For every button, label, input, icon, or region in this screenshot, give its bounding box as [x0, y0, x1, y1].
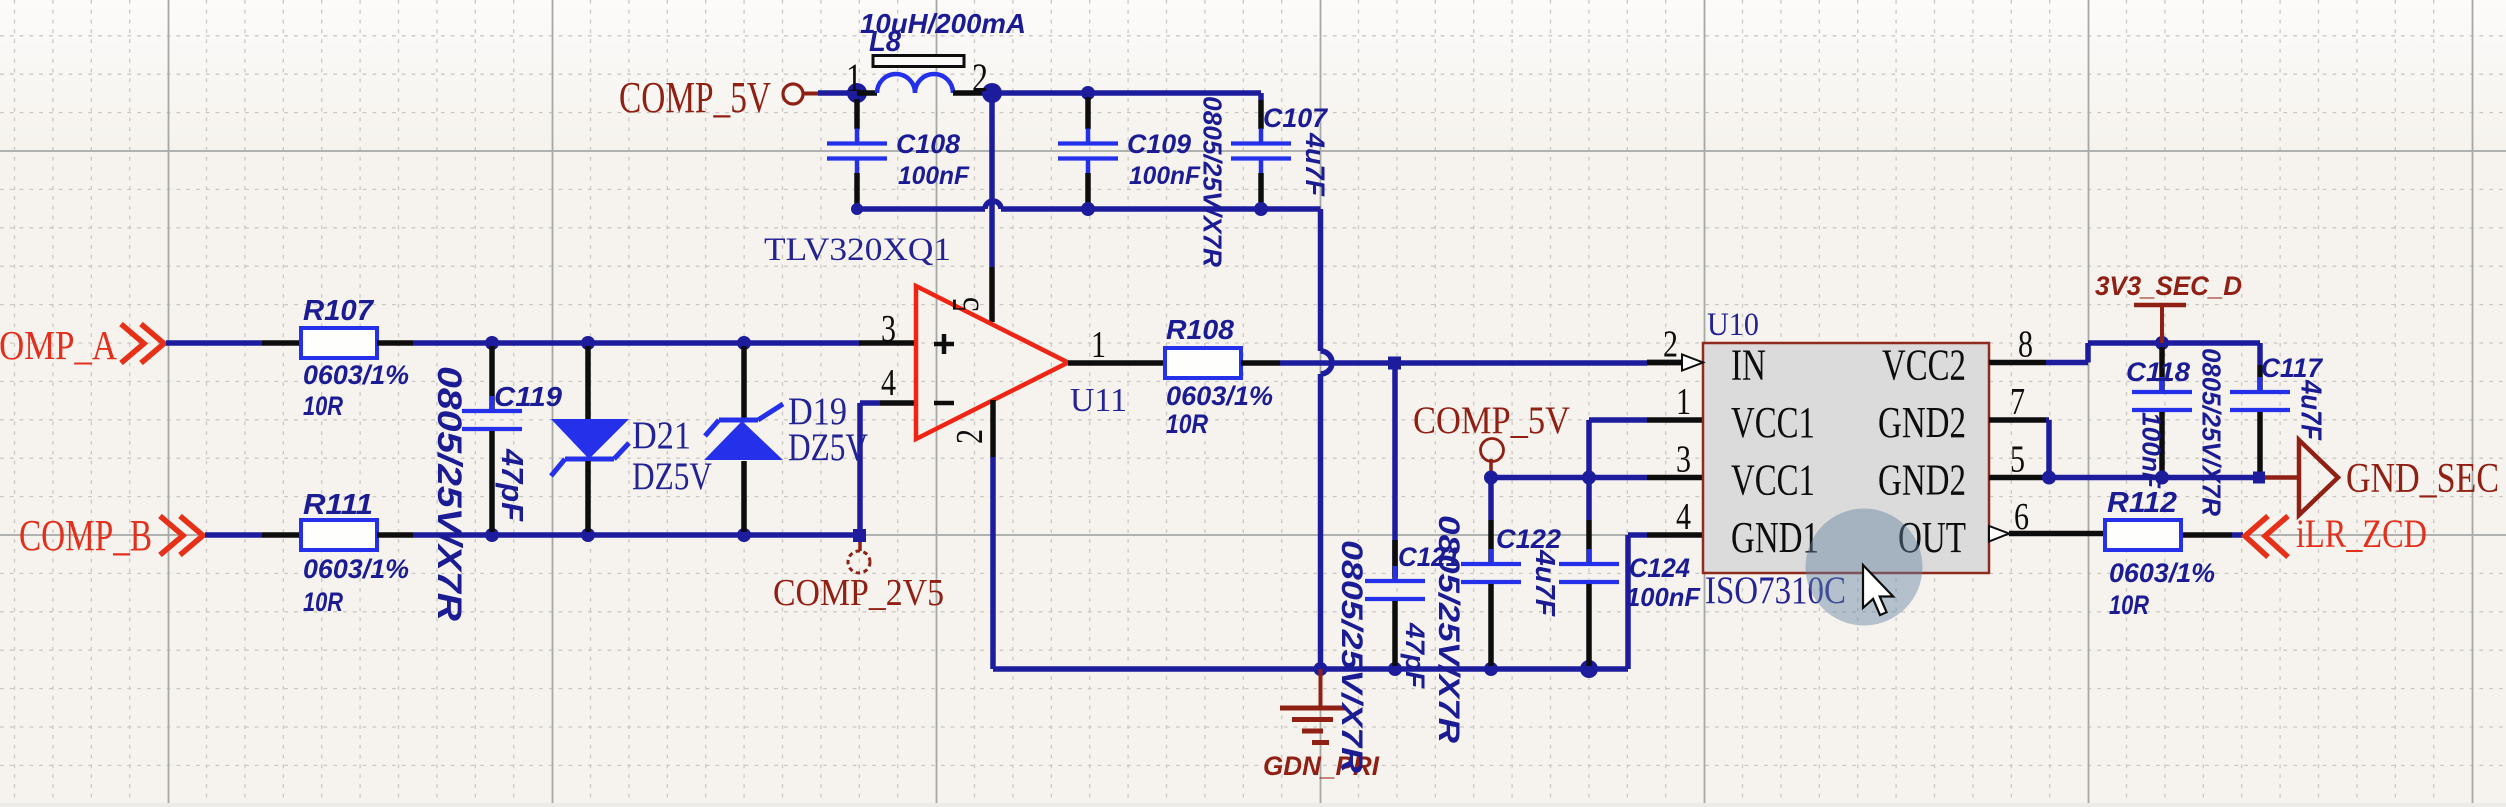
svg-text:VCC1: VCC1: [1731, 456, 1815, 505]
svg-text:GND_SEC: GND_SEC: [2346, 456, 2499, 502]
svg-text:R112: R112: [2107, 487, 2177, 519]
svg-text:iLR_ZCD: iLR_ZCD: [2296, 511, 2427, 556]
svg-text:R111: R111: [303, 489, 373, 521]
svg-text:2: 2: [949, 429, 991, 444]
svg-text:0603/1%: 0603/1%: [2109, 558, 2215, 588]
svg-text:5: 5: [945, 297, 987, 312]
svg-text:0805/25V/X7R: 0805/25V/X7R: [430, 366, 468, 622]
svg-text:C109: C109: [1127, 129, 1191, 159]
svg-text:IN: IN: [1731, 341, 1766, 390]
svg-text:100nF: 100nF: [1626, 582, 1701, 612]
svg-text:VCC2: VCC2: [1882, 341, 1966, 390]
svg-text:C124: C124: [1629, 553, 1690, 583]
svg-text:100nF: 100nF: [1129, 162, 1201, 190]
svg-text:0805/25V/X7R: 0805/25V/X7R: [1335, 540, 1368, 773]
svg-text:4: 4: [1676, 496, 1691, 538]
svg-text:U10: U10: [1707, 307, 1759, 343]
svg-text:1: 1: [1676, 381, 1691, 423]
svg-text:C119: C119: [494, 381, 562, 412]
svg-text:3: 3: [1676, 439, 1691, 481]
svg-text:10R: 10R: [303, 587, 343, 617]
svg-text:2: 2: [972, 55, 988, 100]
svg-text:GND2: GND2: [1878, 398, 1966, 447]
svg-text:0805/25V/X7R: 0805/25V/X7R: [2196, 348, 2226, 516]
svg-text:6: 6: [2014, 496, 2029, 538]
svg-text:3: 3: [881, 308, 896, 350]
svg-text:0603/1%: 0603/1%: [303, 554, 409, 584]
svg-text:4u7F: 4u7F: [1300, 132, 1330, 197]
svg-text:R107: R107: [303, 295, 375, 327]
svg-text:4: 4: [881, 362, 896, 404]
svg-text:10R: 10R: [1166, 409, 1208, 439]
svg-text:5: 5: [2010, 439, 2025, 481]
svg-text:DZ5V: DZ5V: [632, 455, 712, 498]
svg-text:4u7F: 4u7F: [1530, 549, 1561, 617]
svg-text:C117: C117: [2261, 353, 2324, 383]
svg-text:3V3_SEC_D: 3V3_SEC_D: [2095, 271, 2242, 301]
svg-text:GND1: GND1: [1731, 513, 1819, 562]
svg-text:DZ5V: DZ5V: [788, 426, 868, 469]
svg-text:100nF: 100nF: [2136, 412, 2166, 489]
svg-text:1: 1: [846, 55, 862, 100]
svg-text:D21: D21: [632, 414, 691, 457]
svg-text:COMP_5V: COMP_5V: [1413, 399, 1570, 442]
svg-text:C107: C107: [1263, 103, 1329, 133]
svg-text:0805/25V/X7R: 0805/25V/X7R: [1197, 96, 1227, 267]
svg-text:4u7F: 4u7F: [2294, 379, 2326, 441]
svg-text:47pF: 47pF: [495, 448, 530, 522]
svg-text:10R: 10R: [2109, 590, 2149, 620]
svg-text:8: 8: [2018, 324, 2033, 366]
svg-text:1: 1: [1091, 324, 1106, 366]
svg-text:C108: C108: [896, 129, 960, 159]
svg-text:VCC1: VCC1: [1731, 398, 1815, 447]
svg-text:U11: U11: [1070, 382, 1127, 419]
svg-text:10R: 10R: [303, 391, 343, 421]
svg-text:GND2: GND2: [1878, 456, 1966, 505]
svg-text:COMP_2V5: COMP_2V5: [773, 572, 944, 614]
svg-text:47pF: 47pF: [1400, 622, 1430, 690]
svg-text:COMP_A: COMP_A: [0, 322, 117, 368]
svg-text:COMP_5V: COMP_5V: [619, 73, 771, 122]
svg-text:0603/1%: 0603/1%: [303, 360, 409, 390]
svg-text:C118: C118: [2126, 357, 2190, 387]
svg-text:0603/1%: 0603/1%: [1166, 381, 1273, 411]
svg-text:0805/25V/X7R: 0805/25V/X7R: [1432, 515, 1465, 743]
svg-text:10uH/200mA: 10uH/200mA: [860, 8, 1026, 39]
svg-text:R108: R108: [1166, 314, 1234, 345]
svg-text:100nF: 100nF: [898, 162, 970, 190]
svg-text:TLV320XQ1: TLV320XQ1: [764, 232, 951, 268]
svg-text:COMP_B: COMP_B: [19, 511, 152, 560]
svg-text:7: 7: [2010, 381, 2025, 423]
svg-text:2: 2: [1663, 324, 1678, 366]
